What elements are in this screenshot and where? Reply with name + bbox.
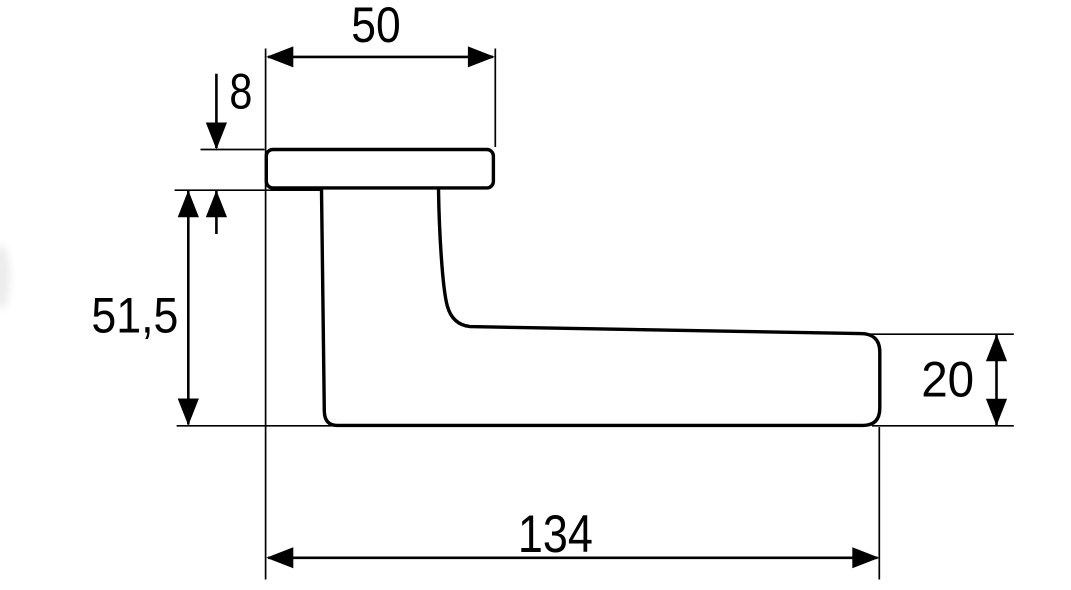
arrow 134 left <box>266 547 293 568</box>
wire: 20 bottom extension <box>872 425 1014 427</box>
wire: right extension line for 50 <box>494 49 496 148</box>
svg-text:134: 134 <box>518 505 593 564</box>
arrow 8 up <box>206 190 227 217</box>
dim 8 line lower <box>215 191 218 234</box>
dim 51,5 line <box>187 191 190 425</box>
svg-text:51,5: 51,5 <box>91 288 178 344</box>
wire: 20 top extension <box>866 333 1014 335</box>
arrow 50 right <box>468 46 495 67</box>
arrow 8 down <box>206 123 227 150</box>
wire: tick at rose top (8 dim) <box>201 149 265 151</box>
lever handle body <box>322 189 880 425</box>
dim 134 line <box>268 556 878 559</box>
faint smudge left edge <box>0 245 10 309</box>
arrow 134 right <box>852 547 879 568</box>
wire: 134 right extension <box>878 427 880 580</box>
arrow 51,5 up <box>178 190 199 217</box>
dim 20 line <box>995 335 998 425</box>
arrow 20 down <box>986 399 1007 426</box>
wire: left extension line (50/134) <box>265 49 267 580</box>
svg-text:50: 50 <box>351 0 401 53</box>
arrow 51,5 down <box>178 399 199 426</box>
svg-text:20: 20 <box>921 351 974 407</box>
dim 8 line upper <box>215 74 218 148</box>
dim 50 line <box>268 56 493 59</box>
wire: extension at lever bottom (51,5) <box>177 425 332 427</box>
arrow 50 left <box>266 46 293 67</box>
rose plate <box>266 150 493 188</box>
svg-text:8: 8 <box>229 64 252 120</box>
wire: extension at neck top (y=190) <box>175 189 322 191</box>
arrow 20 up <box>986 334 1007 361</box>
